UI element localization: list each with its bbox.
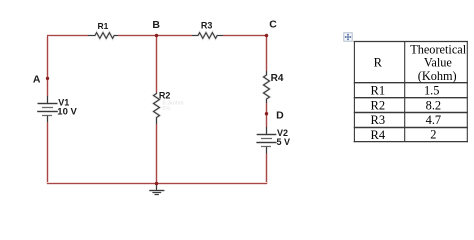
wire: R2 to bottom rail xyxy=(155,124,158,184)
battery V2 xyxy=(256,127,276,154)
wire: left rail from top corner down through node A to V1 xyxy=(46,35,49,97)
svg-text:8.2: 8.2 xyxy=(426,98,442,112)
svg-text:R2: R2 xyxy=(159,90,171,100)
wire: node C down to R4 xyxy=(265,36,268,72)
table grid xyxy=(354,41,468,142)
wire: V2 to bottom rail xyxy=(265,154,268,185)
node B junction dot xyxy=(155,34,159,38)
wire: middle rail node B to R2 xyxy=(155,36,158,93)
table move handle xyxy=(344,33,352,41)
node C junction dot xyxy=(265,34,269,38)
svg-text:10 V: 10 V xyxy=(57,107,77,118)
svg-text:5 V: 5 V xyxy=(277,137,291,147)
resistor R4 xyxy=(264,71,270,103)
wire: bottom rail xyxy=(47,182,267,185)
resistor R3 xyxy=(192,33,223,39)
svg-text:Theoretical: Theoretical xyxy=(410,43,467,57)
svg-text:R3: R3 xyxy=(201,21,213,31)
svg-text:R1: R1 xyxy=(98,21,109,31)
battery V1 xyxy=(37,96,58,122)
svg-text:R4: R4 xyxy=(271,73,284,84)
svg-text:5%: 5% xyxy=(163,106,171,112)
resistor R1 xyxy=(88,33,118,39)
wire: R1 to node B xyxy=(118,34,157,37)
ground xyxy=(149,184,164,195)
wire: R4 to V2 through node D xyxy=(265,103,268,128)
node A dot xyxy=(46,77,49,80)
wire: R3 to node C corner xyxy=(223,34,267,37)
wire: top rail, left corner to R1 xyxy=(47,34,88,37)
node D dot xyxy=(265,112,268,115)
svg-text:R4: R4 xyxy=(371,128,386,142)
svg-text:(Kohm): (Kohm) xyxy=(418,69,457,83)
junction dot at ground connection xyxy=(155,182,159,186)
svg-text:R: R xyxy=(374,55,383,69)
svg-text:C: C xyxy=(269,18,277,30)
svg-text:D: D xyxy=(276,110,284,122)
svg-text:4.7: 4.7 xyxy=(426,113,442,127)
wire: node B to R3 xyxy=(157,34,193,37)
wire: V1 to bottom rail xyxy=(46,122,49,184)
resistor R2 xyxy=(154,93,160,125)
svg-text:Value: Value xyxy=(424,56,453,70)
svg-text:R2: R2 xyxy=(371,98,386,112)
svg-text:A: A xyxy=(33,74,41,86)
svg-text:R1: R1 xyxy=(371,84,386,98)
svg-text:R3: R3 xyxy=(371,113,386,127)
svg-text:2: 2 xyxy=(430,128,436,142)
svg-text:1.5: 1.5 xyxy=(424,84,440,98)
svg-text:B: B xyxy=(152,19,160,31)
